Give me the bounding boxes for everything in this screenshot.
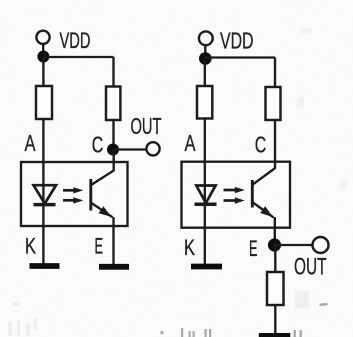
wire LED cathode to pin K ground (right)	[204, 204, 206, 265]
resistor R2 (left load)	[106, 87, 120, 121]
ground (pin K left)	[30, 263, 60, 269]
svg-text:K: K	[25, 234, 36, 259]
wire R2 to node C	[112, 120, 114, 150]
wire rail down to resistor R4	[274, 58, 276, 89]
wire VDD rail horizontal (right)	[205, 56, 275, 58]
phototransistor Q2 of U2	[252, 168, 275, 217]
svg-text:C: C	[255, 131, 267, 157]
svg-text:VDD: VDD	[60, 28, 91, 53]
ground (bottom right)	[259, 333, 291, 337]
terminal VDD (left)	[36, 31, 49, 44]
wire junction to resistor R1	[42, 57, 44, 86]
resistor R3 (right input)	[197, 86, 212, 119]
resistor R4 (right collector)	[266, 87, 281, 120]
junction node (left VDD rail)	[37, 51, 49, 63]
ground (pin E left)	[99, 264, 129, 270]
wire node C to OUT terminal	[114, 148, 147, 150]
junction node (right VDD rail)	[199, 52, 212, 65]
terminal VDD (right)	[199, 31, 213, 45]
svg-text:A: A	[185, 130, 196, 156]
svg-text:E: E	[95, 234, 104, 259]
phototransistor Q1 of U1	[91, 171, 114, 218]
light arrows of U1	[63, 187, 83, 203]
svg-text:E: E	[249, 236, 258, 261]
terminal OUT (right)	[313, 237, 329, 253]
terminal OUT (left)	[146, 142, 159, 155]
svg-text:VDD: VDD	[220, 28, 254, 54]
wire VDD rail horizontal	[43, 56, 113, 58]
LED D1 of U1	[34, 185, 57, 204]
faint page artifacts bottom	[161, 303, 328, 337]
wire VDD terminal to junction	[42, 44, 44, 52]
svg-text:A: A	[25, 130, 36, 156]
svg-text:K: K	[184, 235, 195, 260]
wire node C into optocoupler collector	[113, 150, 115, 172]
wire emitter to pin E ground	[112, 217, 114, 265]
svg-text:C: C	[92, 131, 104, 157]
wire VDD terminal to junction (right)	[204, 46, 206, 55]
svg-text:OUT: OUT	[294, 254, 327, 281]
wire R3 to LED anode (node A right)	[204, 119, 206, 187]
LED D2 of U2	[195, 186, 217, 205]
wire rail down to resistor R2	[112, 57, 114, 87]
resistor R5 (emitter load)	[267, 272, 284, 305]
node E junction dot (right OUT tap)	[268, 238, 281, 251]
light arrows of U2	[224, 187, 245, 204]
wire node E to resistor R5	[274, 245, 276, 273]
ground (pin K right)	[191, 264, 222, 270]
wire LED cathode to pin K ground	[42, 204, 44, 264]
wire node E to OUT terminal (right)	[275, 244, 312, 246]
optocoupler U2 body	[182, 162, 291, 228]
wire emitter to node E (right)	[274, 217, 276, 240]
resistor R1 (left input)	[36, 86, 52, 119]
wire R5 to ground	[274, 305, 276, 334]
wire junction to resistor R3	[204, 59, 206, 88]
svg-text:OUT: OUT	[131, 113, 162, 139]
node C junction dot (left OUT tap)	[107, 144, 119, 156]
wire R4 to collector (node C right)	[274, 120, 276, 169]
wire R1 to LED anode (node A)	[42, 118, 44, 187]
optocoupler U1 body	[21, 162, 128, 226]
